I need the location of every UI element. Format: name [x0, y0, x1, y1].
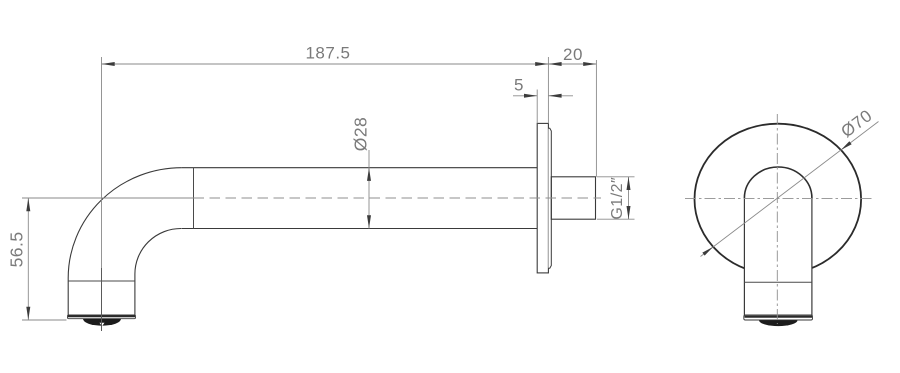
dimension D70 : upper arrow: [841, 141, 852, 150]
elbow outer arc: [68, 168, 182, 278]
outlet centerline dark segment: [101, 268, 103, 331]
dimension 187.5 : right arrow: [535, 62, 548, 66]
dimension 56.5 : top arrow: [26, 198, 30, 211]
dimension 56.5 : top extension line: [22, 197, 194, 199]
dimension D70 : lower arrow: [702, 247, 713, 256]
dimension 20 : dimension line: [548, 63, 596, 65]
dimension 20 : pipe-end extension line: [595, 60, 597, 177]
dimension 187.5 : left arrow: [102, 62, 115, 66]
dimension D28 : bottom arrow: [367, 215, 371, 228]
outlet junction line: [68, 280, 135, 282]
dimension D70 : dimension line: [701, 122, 879, 257]
outlet right edge: [134, 274, 136, 315]
dimension G1/2 : bottom arrow: [627, 206, 631, 219]
spout left edge: [743, 198, 745, 315]
svg-text:20: 20: [563, 45, 583, 64]
dimension 187.5 : dimension line: [102, 63, 549, 65]
dimension 20 : left arrow: [548, 62, 561, 66]
dimension 5 : right tail with arrow: [548, 95, 573, 97]
dimension 56.5 : bottom extension line: [22, 319, 67, 321]
tube centerline (dashed): [194, 197, 602, 199]
dimension D28 : dimension line: [368, 150, 370, 229]
dimension G1/2 : top extension line: [597, 176, 635, 178]
dimension 56.5 : bottom arrow: [26, 307, 30, 320]
dimension G1/2 : top arrow: [627, 177, 631, 190]
spout tube bottom edge: [181, 228, 537, 230]
outlet end cap: [68, 315, 136, 319]
outlet end cap thick line: [745, 316, 813, 318]
dimension G1/2 : bottom extension line: [597, 218, 635, 220]
aerator (dark insert): [83, 319, 121, 326]
flange circle (D70): [695, 124, 862, 275]
horizontal centerline: [685, 197, 873, 199]
svg-text:187.5: 187.5: [305, 44, 350, 63]
outlet end cap: [744, 315, 813, 320]
elbow-tube junction line: [193, 168, 195, 229]
spout tube top edge: [182, 167, 538, 169]
vertical centerline: [776, 114, 778, 324]
dimension 187.5 : left extension line (outlet centerline): [101, 57, 103, 330]
svg-text:G1/2″: G1/2″: [609, 177, 626, 220]
wall flange back ring: [548, 128, 551, 268]
dimension D28 : top arrow: [367, 168, 371, 181]
aerator (dark insert): [759, 320, 798, 326]
outlet left edge: [67, 278, 69, 315]
wall flange front plate: [537, 123, 548, 273]
svg-text:Ø28: Ø28: [351, 117, 371, 152]
dimension 56.5 : dimension line: [27, 198, 29, 320]
elbow inner arc: [135, 229, 181, 275]
dimension 5 : flange-front extension line: [536, 90, 538, 124]
svg-text:56.5: 56.5: [7, 231, 27, 267]
dimension G1/2 : dimension line: [628, 177, 630, 219]
outlet end cap thick line: [68, 315, 135, 317]
spout U-bend top arc: [744, 167, 812, 198]
spout junction line: [744, 281, 812, 283]
threaded pipe G1/2: [551, 177, 595, 219]
svg-text:5: 5: [514, 76, 524, 95]
dimension 5 : left tail with arrow: [513, 95, 537, 97]
dimension 20 : right arrow: [583, 62, 596, 66]
spout body mask over flange circle: [744, 167, 812, 316]
dimension 187.5 : right extension line: [547, 57, 549, 123]
aerator notch: [100, 323, 105, 326]
spout right edge: [811, 198, 813, 315]
